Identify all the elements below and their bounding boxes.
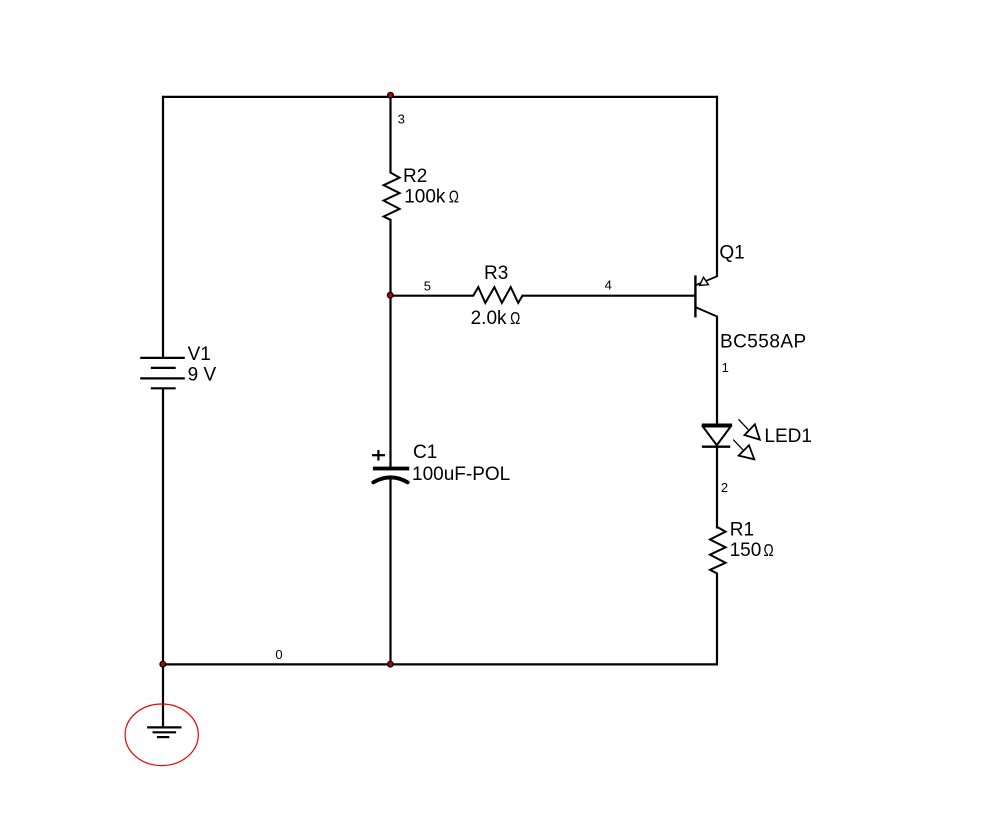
wire left lower (battery to ground rail)	[162, 388, 164, 665]
wire ground stem	[162, 664, 164, 727]
junction node bottom-mid	[388, 661, 394, 667]
wire LED to R1	[716, 446, 718, 529]
svg-text:Ω: Ω	[449, 188, 459, 207]
svg-text:5: 5	[424, 279, 431, 294]
svg-text:Q1: Q1	[719, 243, 744, 264]
ground symbol	[147, 727, 181, 737]
wire bottom rail	[162, 663, 718, 665]
wire right top (top rail to emitter)	[716, 96, 718, 277]
wire node5 to R3	[390, 295, 475, 297]
svg-text:100uF-POL: 100uF-POL	[412, 464, 510, 485]
wire R3 to base	[522, 295, 696, 297]
junction node top (net 3)	[388, 92, 394, 98]
svg-text:9 V: 9 V	[188, 364, 217, 385]
svg-text:0: 0	[275, 647, 282, 662]
battery V1	[140, 358, 185, 388]
svg-text:LED1: LED1	[764, 426, 812, 447]
junction node ground-left	[160, 661, 166, 667]
wire mid top (top rail to R2)	[389, 96, 391, 173]
svg-text:3: 3	[398, 112, 405, 127]
wire node5 down to C1	[389, 295, 391, 467]
svg-text:Ω: Ω	[510, 310, 520, 329]
wire C1 to bottom rail	[389, 479, 391, 666]
svg-text:Ω: Ω	[764, 542, 774, 561]
svg-text:1: 1	[722, 360, 729, 375]
red highlight ellipse around ground	[125, 704, 198, 766]
svg-text:V1: V1	[188, 344, 211, 365]
svg-text:150: 150	[730, 540, 762, 561]
wire left upper (V+ to battery)	[162, 96, 164, 359]
svg-text:4: 4	[605, 278, 612, 293]
resistor R1	[710, 527, 726, 574]
svg-text:R2: R2	[403, 166, 427, 187]
svg-text:R1: R1	[730, 520, 754, 541]
wire collector to LED	[716, 316, 718, 426]
resistor R2	[384, 173, 400, 220]
resistor R3	[473, 287, 522, 303]
transistor Q1	[695, 275, 717, 317]
LED LED1	[702, 419, 760, 459]
svg-text:BC558AP: BC558AP	[720, 332, 807, 353]
svg-text:100k: 100k	[404, 186, 446, 207]
capacitor C1	[372, 450, 409, 482]
svg-text:R3: R3	[484, 263, 508, 284]
svg-text:2.0k: 2.0k	[471, 308, 507, 329]
wire R2 to node 5	[389, 219, 391, 297]
junction node 5	[387, 292, 393, 298]
wire top rail	[162, 96, 718, 98]
svg-text:C1: C1	[413, 442, 437, 463]
wire R1 to bottom rail	[716, 573, 718, 666]
svg-text:2: 2	[721, 480, 728, 495]
